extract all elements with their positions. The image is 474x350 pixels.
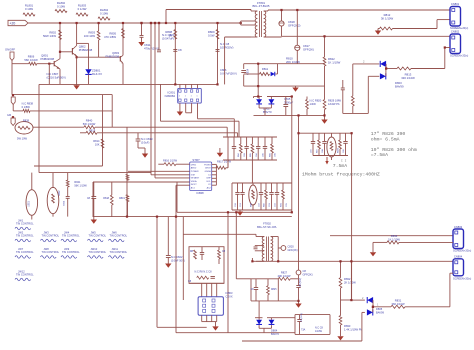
wire box x93 left edge <box>92 182 94 217</box>
svg-text:C820: C820 <box>288 245 295 249</box>
wire T801 primary bottom pin <box>251 36 257 38</box>
snubber cap x202 <box>201 247 203 252</box>
svg-text:AVDD: AVDD <box>191 167 197 170</box>
wire vertical x175.3 branch <box>174 23 176 84</box>
cluster1 cap x265 <box>264 137 266 146</box>
wire rail B y133.2 <box>299 132 352 134</box>
ground CN803 pin2 <box>372 242 374 252</box>
cluster2 resistor x340 <box>339 133 341 140</box>
resistor R809 <box>216 30 219 39</box>
svg-text:N.C R820: N.C R820 <box>310 99 322 103</box>
svg-text:R840: R840 <box>86 119 93 123</box>
svg-text:SCREEN+20(x): SCREEN+20(x) <box>450 26 468 30</box>
controller left pin wires <box>158 163 164 165</box>
resistor R825 in box <box>267 279 269 286</box>
wire vertical x159 NC cap branch <box>158 23 160 50</box>
wire transformer tap upper <box>241 20 256 22</box>
svg-text:N.C C807: N.C C807 <box>47 72 59 76</box>
port flag hanging at x13 <box>12 94 14 96</box>
svg-text:R817 1/10W: R817 1/10W <box>217 161 232 164</box>
svg-text:GNDA: GNDA <box>205 170 212 173</box>
svg-text:R811: R811 <box>262 67 269 71</box>
wire CN803 pin2 + resistor R830 <box>373 241 387 243</box>
wire D805 output node <box>372 300 374 307</box>
capacitor left taps <box>254 246 258 248</box>
wire bottom rail y261.3 <box>252 260 453 262</box>
wire diode row rail y96.5 <box>254 96 263 98</box>
svg-text:1: 1 <box>185 96 186 98</box>
svg-text:N.C C822: N.C C822 <box>171 255 183 259</box>
svg-text:+20: +20 <box>10 22 16 26</box>
wire cluster3 bottom rail y210 <box>232 209 292 211</box>
ground below box y86 <box>295 86 297 87</box>
svg-text:3K 1/10W: 3K 1/10W <box>381 16 394 20</box>
wire y132.8 to cluster1 <box>97 132 238 134</box>
svg-text:(C216 5uF(50V): (C216 5uF(50V) <box>47 76 66 80</box>
svg-text:50W 1/4W: 50W 1/4W <box>43 34 56 38</box>
cluster2 cap x313 <box>312 133 314 141</box>
svg-text:R826: R826 <box>338 147 340 153</box>
svg-text:470 1/8W: 470 1/8W <box>104 35 116 39</box>
resistor R819 <box>126 195 129 202</box>
wire top rail y23 <box>28 22 241 24</box>
svg-text:1K: 1K <box>169 34 173 38</box>
current arrow annotation <box>326 157 328 162</box>
svg-text:0 10W: 0 10W <box>57 5 65 9</box>
ground below cluster3 <box>239 210 241 212</box>
wire to CN804 pin2 <box>449 273 451 307</box>
wire y278.8 row <box>236 278 251 280</box>
wire R812 left to ground <box>377 29 379 31</box>
svg-text:0 1/4W: 0 1/4W <box>78 7 87 11</box>
wire R803 to bus <box>98 40 100 57</box>
junction pad to transformer taps <box>240 22 242 24</box>
svg-text:TIN CONTROL: TIN CONTROL <box>42 250 60 254</box>
svg-text:D804: D804 <box>271 329 278 333</box>
resistor R820 NC <box>306 97 308 100</box>
svg-text:POWER: POWER <box>191 171 199 173</box>
wire vertical x141.5 capacitor branch <box>141 23 143 35</box>
ground top right <box>375 31 381 35</box>
svg-text:=7.5mA: =7.5mA <box>371 152 388 158</box>
cluster3 ellipse <box>252 183 254 185</box>
svg-text:TIN CONTROL: TIN CONTROL <box>42 234 60 238</box>
wire CN802 pin2 path <box>445 47 450 49</box>
wire vertical x123 from rail <box>122 23 124 55</box>
wire vertical x217.5 branch <box>217 23 219 85</box>
svg-text:TIN CONTROL: TIN CONTROL <box>16 250 34 254</box>
cluster1 cap x234 <box>233 137 235 146</box>
wire diode rail y317.7 <box>255 317 263 319</box>
wire diode drop from box <box>258 301 260 320</box>
svg-text:SCREEN+20(x): SCREEN+20(x) <box>453 249 471 253</box>
cluster3 left edge <box>231 183 233 210</box>
svg-text:1.4K 1/10W Pb: 1.4K 1/10W Pb <box>344 327 363 331</box>
svg-text:BKL-FT-BL05: BKL-FT-BL05 <box>253 4 270 8</box>
svg-text:360 1/10W: 360 1/10W <box>392 302 405 306</box>
wire op-amp pin4 route to cluster1 <box>197 108 199 119</box>
capacitor C814 <box>241 70 246 72</box>
lamp stubs bottom <box>31 215 33 219</box>
diode D805 pair lower <box>362 311 365 313</box>
cluster1 resistor x252.4 <box>251 137 253 144</box>
ground below C822 <box>165 264 171 268</box>
wire cluster3 top rail y183 <box>232 182 292 184</box>
IC803 box <box>198 297 223 316</box>
fuse circle R839 <box>15 122 33 134</box>
svg-text:R806: R806 <box>28 55 35 59</box>
wire vertical x297.3 with C817 <box>296 10 298 45</box>
wire T802 top-right pin <box>271 236 278 238</box>
svg-text:17" R826 390: 17" R826 390 <box>371 131 406 137</box>
wire x298.5 down with cap <box>298 279 300 285</box>
capacitor C818 (circle) <box>279 21 284 26</box>
wire lower rail y115.4 <box>254 114 325 116</box>
svg-text:(0.5uF): (0.5uF) <box>141 140 149 144</box>
snubber resistor x195 <box>194 250 197 259</box>
wire vertical x281.5 with C818 <box>281 10 283 21</box>
svg-text:1/10W Pb: 1/10W Pb <box>328 102 340 106</box>
ground below IC2 <box>215 322 217 327</box>
cluster3 cap x277 <box>276 183 278 192</box>
resistor R818 <box>110 195 113 205</box>
svg-text:56K 1/10W: 56K 1/10W <box>74 184 87 187</box>
svg-text:D805: D805 <box>376 307 383 311</box>
svg-text:SCREEN+20(x): SCREEN+20(x) <box>453 276 471 280</box>
wire bottom rail y341 <box>242 340 362 342</box>
svg-text:R816 1/10W: R816 1/10W <box>163 160 178 163</box>
capacitor C817 (circle) <box>295 45 300 50</box>
diode D804b <box>271 318 273 320</box>
wire zener branch <box>77 42 89 44</box>
wire vertical x352.8 with resistor R829 <box>352 64 354 96</box>
ground below op-amp <box>179 108 181 112</box>
svg-text:1Mohm brust frequency:400HZ: 1Mohm brust frequency:400HZ <box>302 171 380 177</box>
ground below C811 <box>141 37 143 42</box>
wire snubber box bottom connect <box>189 282 224 284</box>
wire y121.2 from x160.5 <box>160 84 162 121</box>
svg-text:C824: C824 <box>64 200 66 206</box>
resistor R831 output <box>373 306 391 308</box>
wire vertical x351.6 long <box>351 133 353 300</box>
svg-text:0 10W: 0 10W <box>100 12 108 16</box>
ground on bottom rail <box>337 336 343 340</box>
svg-text:N.C R838: N.C R838 <box>22 102 34 106</box>
svg-text:GFF(2K): GFF(2K) <box>288 248 298 252</box>
svg-text:R829 1/8W: R829 1/8W <box>328 99 342 103</box>
wire vertical x368.3 <box>367 76 369 113</box>
svg-text:R825: R825 <box>271 289 277 291</box>
svg-text:PNB02008: PNB02008 <box>40 57 54 61</box>
bottom box x295-330 <box>295 314 330 316</box>
wire snubber rail y234.3 <box>183 233 256 235</box>
svg-text:TIN CONTROL: TIN CONTROL <box>16 234 34 238</box>
svg-text:TIN CONTROL: TIN CONTROL <box>16 222 34 226</box>
svg-text:R839: R839 <box>23 119 30 123</box>
svg-text:TIN CONTROL: TIN CONTROL <box>16 273 34 277</box>
wire T802 left taps <box>255 245 264 247</box>
svg-text:DRV2: DRV2 <box>205 168 211 170</box>
svg-text:R814: R814 <box>93 139 100 143</box>
cluster3 resistor x283 <box>282 183 284 190</box>
wire horizontal y113.4 <box>343 112 369 114</box>
svg-text:R819: R819 <box>119 197 125 200</box>
svg-text:C8 (50V): C8 (50V) <box>300 278 302 287</box>
resistor R817 <box>216 166 225 169</box>
capacitor C820b (circle) <box>278 247 281 249</box>
svg-text:N.C C819: N.C C819 <box>141 137 153 141</box>
ground below box <box>93 217 95 220</box>
svg-text:N.C R8 N.C C8: N.C R8 N.C C8 <box>194 271 212 274</box>
svg-text:56K 1/10W: 56K 1/10W <box>24 58 38 62</box>
svg-text:C8: C8 <box>178 48 182 52</box>
wire vertical x258.2 through box <box>257 64 259 97</box>
svg-text:0 10W: 0 10W <box>25 7 33 11</box>
resistor R826 vertical x340.5 <box>340 261 342 277</box>
controller right pin wires <box>212 163 217 165</box>
wire transformer tap lower <box>241 24 256 26</box>
svg-text:1: 1 <box>197 96 198 98</box>
svg-text:5W 10W: 5W 10W <box>17 137 27 141</box>
svg-text:BAV99: BAV99 <box>376 310 384 314</box>
wire cluster1 to cluster3 <box>251 160 253 183</box>
svg-text:ICB08: ICB08 <box>196 191 204 195</box>
svg-text:BAV70: BAV70 <box>271 332 279 336</box>
wire rail y327.3 <box>157 326 207 328</box>
cluster2 resistor x319 <box>318 133 320 140</box>
svg-text:BAV99: BAV99 <box>395 85 404 89</box>
resistor R823 on x324.5 lower <box>323 100 326 110</box>
svg-text:19" R826 300 ohm: 19" R826 300 ohm <box>371 147 417 153</box>
svg-text:SCREEN+20(x): SCREEN+20(x) <box>450 54 468 58</box>
wire vertical x176 long <box>175 185 177 333</box>
capacitor C816 <box>91 196 96 198</box>
wire Q802 emitter down <box>76 56 78 85</box>
svg-text:100 10W: 100 10W <box>84 34 96 38</box>
wire y57.2 bus to Q803 <box>77 56 121 58</box>
controller IC802 box <box>190 162 212 191</box>
op-amp top pins <box>179 84 181 88</box>
svg-text:1: 1 <box>179 96 180 98</box>
svg-text:NJM084: NJM084 <box>165 94 176 98</box>
wire y127.2 to cluster1 <box>95 126 227 128</box>
svg-text:TIN CONTROL: TIN CONTROL <box>110 250 128 254</box>
svg-text:L801: L801 <box>28 201 31 207</box>
svg-text:(0.5uF 50V): (0.5uF 50V) <box>171 258 185 262</box>
wire y94.6 horizontal <box>12 94 112 96</box>
cluster1 cap x258.2 <box>257 137 259 146</box>
capacitor in box <box>255 279 257 287</box>
svg-text:CN804: CN804 <box>454 255 463 259</box>
lamp L802 stub <box>52 173 54 188</box>
lamp L801 ellipse <box>26 190 38 216</box>
svg-text:VETA/ST: VETA/ST <box>191 177 200 180</box>
svg-text:BAV70: BAV70 <box>263 110 272 114</box>
wire T802 bottom-left pin <box>256 260 264 262</box>
wire box bottom y86.1 <box>244 85 325 87</box>
capacitor C812 <box>173 49 177 51</box>
svg-text:1/4W: 1/4W <box>310 102 317 106</box>
wire rail y166 <box>34 165 103 167</box>
svg-text:1K 1/10W: 1K 1/10W <box>388 237 400 241</box>
wire x298.5 up link <box>298 115 300 133</box>
wire vertical x168.3 cap branch <box>167 217 169 255</box>
wire rail y332.7 <box>176 332 295 334</box>
transformer T802 <box>262 237 264 262</box>
ground under C819 <box>142 154 148 158</box>
svg-text:GFF(2K2): GFF(2K2) <box>288 23 301 27</box>
wire vertical x98.6 from rail <box>98 23 100 31</box>
svg-text:CN801: CN801 <box>451 2 460 6</box>
wire vertical x361.9 to bottom rail <box>361 312 363 341</box>
cluster3 cap x237.5 <box>237 183 239 192</box>
wire y110.9 horizontal with R838 <box>13 110 23 112</box>
wire vertical x155 <box>154 23 156 178</box>
svg-text:TIN CONTROL: TIN CONTROL <box>110 234 128 238</box>
ground stub below rail <box>76 83 78 86</box>
cluster1 cap x246.6 <box>246 137 248 146</box>
svg-text:VDDA: VDDA <box>191 180 197 183</box>
wire CN803 pin1 <box>330 235 453 237</box>
svg-text:STR?: STR? <box>192 158 200 162</box>
svg-text:C806: C806 <box>220 68 227 72</box>
wire vertical x166 link to upper rail <box>165 10 167 24</box>
wire cluster1 top rail y137 <box>223 136 277 138</box>
wire ON/OFF down <box>11 61 13 95</box>
port +20 input flag <box>8 20 28 25</box>
wire vertical x112.2 down to fuse wire <box>111 111 113 127</box>
resistor R808 <box>174 30 177 39</box>
wire fuse to R840 <box>33 126 84 128</box>
svg-text:GFF(2K): GFF(2K) <box>303 47 314 51</box>
wire cluster2 bottom y155.5 <box>313 155 348 157</box>
svg-text:DRV1: DRV1 <box>191 164 197 166</box>
IC2 pins bottom <box>201 315 203 321</box>
wire vertical x60 from rail <box>59 23 61 59</box>
wire box bottom y217 <box>93 216 292 218</box>
column x67.7 resistor+cap <box>67 173 69 180</box>
capacitor C813 <box>216 49 220 51</box>
svg-text:C815: C815 <box>284 97 291 101</box>
wire box left edge x243.7 with capacitor <box>243 64 245 69</box>
wire vertical x236.3 <box>235 212 237 278</box>
ground below y300.9 <box>298 301 300 304</box>
wire rail y212.3 <box>177 211 292 213</box>
svg-text:ISCFT: ISCFT <box>191 184 198 186</box>
svg-text:20K 1/10W: 20K 1/10W <box>286 60 300 64</box>
wire below diodes <box>258 325 260 328</box>
wire vertical x127 long <box>126 127 128 216</box>
ground right of IC <box>219 148 221 153</box>
svg-text:R832: R832 <box>344 277 351 281</box>
box x251-x278 <box>250 279 252 301</box>
cluster2 cap x324.5 <box>324 133 326 141</box>
capacitor C811 <box>140 35 144 37</box>
wire vertical x112.2 right side <box>111 95 113 111</box>
wire op-amp pins 2-3 jog <box>186 112 192 114</box>
svg-text:TIN CONTROL: TIN CONTROL <box>62 250 80 254</box>
svg-text:0.047uF(2KV): 0.047uF(2KV) <box>220 71 237 75</box>
svg-text:CMP: CMP <box>206 178 211 180</box>
svg-text:PNB02008: PNB02008 <box>105 55 119 59</box>
snubber box T802 left <box>189 247 224 284</box>
cluster2 cap x345.5 <box>345 133 347 141</box>
svg-text:0 1/8W: 0 1/8W <box>22 105 31 109</box>
svg-text:73A: 73A <box>301 329 306 332</box>
diode D804a <box>256 320 262 325</box>
cluster1 resistor x240.8 <box>240 137 242 144</box>
capacitor in bottom box <box>299 315 301 319</box>
wire rail y63.7 <box>244 63 325 65</box>
svg-text:R818: R818 <box>103 197 109 200</box>
svg-text:POWG: POWG <box>204 164 211 166</box>
svg-text:CXXX: CXXX <box>226 294 233 298</box>
op-amp bottom pins <box>179 103 181 108</box>
wire Q803 emitter to rail <box>122 63 124 84</box>
svg-text:1: 1 <box>191 96 192 98</box>
wire Q801 collector to Q802 base <box>60 51 72 53</box>
IC2 pins top <box>201 283 203 296</box>
wire box bottom y300.9 <box>251 300 299 302</box>
wire vertical x291.8 long <box>291 97 293 213</box>
resistor R811 with diode D801 <box>244 73 260 75</box>
resistor R833 lower <box>340 300 342 316</box>
cluster1 resistor x272 <box>271 137 273 144</box>
wire vertical x102.5 <box>102 95 104 166</box>
lamp L801 stub <box>31 173 33 190</box>
wire upper rail y9.5 <box>166 9 251 11</box>
wire below ZD801 <box>88 74 90 84</box>
wire Q803 base stub <box>119 57 121 58</box>
wire vertical x342.8 with cap <box>342 80 344 88</box>
svg-text:2K 1/10W: 2K 1/10W <box>344 280 356 284</box>
svg-text:ohm= 6.5mA: ohm= 6.5mA <box>371 137 400 143</box>
svg-text:RLZ-XX: RLZ-XX <box>92 72 102 76</box>
wire rail y36.3 to CN802 <box>282 35 451 37</box>
svg-text:1/10W: 1/10W <box>315 330 323 333</box>
wire vertical x151 <box>150 23 152 175</box>
junction pads extra <box>174 83 176 85</box>
svg-text:L802: L802 <box>58 190 61 196</box>
wire vertical x157 <box>156 217 158 328</box>
svg-text:330 1/10W: 330 1/10W <box>401 76 415 80</box>
wire junction x49.3 down to rail <box>48 63 50 65</box>
wire y172.6 over lamps <box>39 172 151 174</box>
svg-text:1K 1/10W: 1K 1/10W <box>328 61 341 65</box>
svg-text:100P(50V): 100P(50V) <box>220 46 233 50</box>
resistor R822 on x324.5 <box>324 36 326 57</box>
diode D802a <box>258 97 260 100</box>
svg-text:7.5mA: 7.5mA <box>333 163 348 169</box>
diode D803 pair upper (BAV99) <box>353 63 380 65</box>
svg-text:I I: I I <box>341 160 347 163</box>
op-amp IC801 box <box>178 88 202 103</box>
diode D805 pair upper <box>350 261 352 300</box>
zener diode ZD801 <box>85 69 91 74</box>
svg-text:IC803: IC803 <box>226 291 233 295</box>
wire T801 primary top pin <box>250 10 252 12</box>
wire cluster1 bottom rail y160 <box>223 159 277 161</box>
resistor R842 upper <box>126 174 129 180</box>
svg-text:TIN CONTROL: TIN CONTROL <box>62 234 80 238</box>
wire diodes to lower rail <box>258 104 260 108</box>
wire rail y84.4 <box>39 83 218 85</box>
wire T801 secondary top to top-right rail <box>264 10 268 12</box>
svg-text:TIN CONTROL: TIN CONTROL <box>89 250 107 254</box>
svg-text:IOM: IOM <box>191 174 195 176</box>
svg-text:PNB02008: PNB02008 <box>79 48 93 52</box>
wire IC2 bottom bus <box>202 321 217 323</box>
